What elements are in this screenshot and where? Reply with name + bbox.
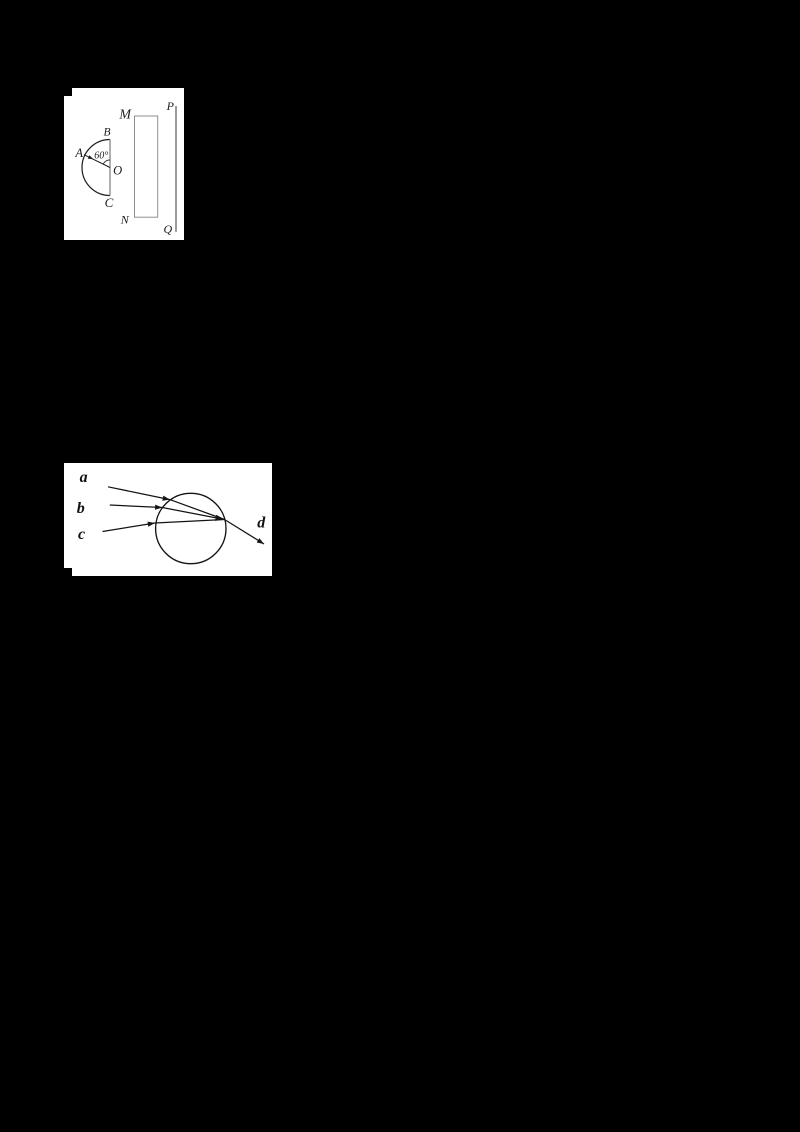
svg-text:b: b [77, 500, 85, 517]
arrowhead at convergence point [215, 515, 224, 521]
ray c [103, 520, 225, 532]
ray d [225, 520, 265, 545]
svg-text:d: d [257, 515, 266, 532]
svg-text:60°: 60° [94, 150, 108, 161]
ray a [108, 487, 225, 520]
semicircle arc [82, 140, 110, 196]
figure 1: semicircular glass block with screen MN and line PQ [64, 88, 184, 240]
ray AO arrowhead [88, 155, 94, 159]
svg-text:O: O [113, 163, 122, 177]
figure 2: rays a,b,c through glass sphere exiting as d [64, 463, 272, 576]
svg-text:A: A [74, 146, 83, 160]
svg-text:Q: Q [163, 222, 172, 236]
svg-text:M: M [118, 108, 132, 123]
corner notch [64, 568, 72, 576]
svg-text:C: C [105, 195, 114, 210]
ray d arrowhead [257, 538, 264, 544]
svg-text:P: P [166, 99, 175, 113]
ray c arrowhead [148, 522, 156, 527]
angle arc at O [103, 160, 110, 164]
ray a arrowhead [162, 496, 170, 501]
svg-text:B: B [103, 127, 110, 139]
svg-text:a: a [80, 469, 88, 486]
glass sphere [156, 493, 226, 563]
corner notch [64, 88, 72, 96]
ray b [110, 505, 225, 520]
screen rectangle MN [135, 116, 158, 217]
ray b arrowhead [155, 505, 162, 510]
svg-text:c: c [78, 526, 85, 543]
svg-text:N: N [120, 213, 130, 227]
diameter BC [109, 140, 111, 196]
ray AO [84, 155, 110, 168]
line PQ [175, 106, 177, 232]
